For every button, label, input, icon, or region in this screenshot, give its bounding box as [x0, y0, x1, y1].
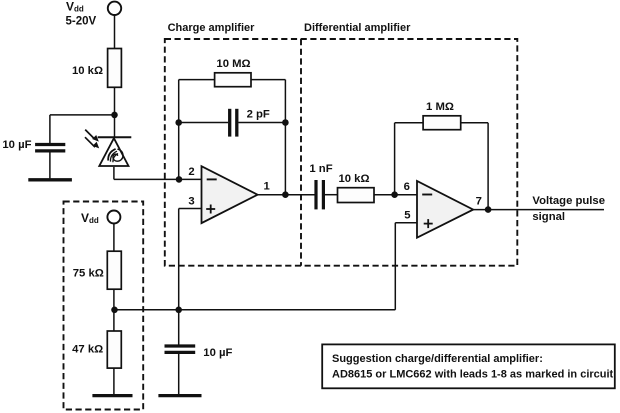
- svg-text:1 nF: 1 nF: [309, 163, 332, 175]
- svg-text:10 µF: 10 µF: [2, 139, 31, 151]
- svg-text:1 MΩ: 1 MΩ: [426, 101, 454, 113]
- svg-text:10 µF: 10 µF: [203, 347, 232, 359]
- svg-text:2: 2: [188, 166, 194, 178]
- svg-text:6: 6: [404, 181, 410, 193]
- svg-text:10 kΩ: 10 kΩ: [72, 65, 103, 77]
- svg-text:10 kΩ: 10 kΩ: [338, 173, 369, 185]
- svg-text:10 MΩ: 10 MΩ: [216, 58, 250, 70]
- svg-text:75 kΩ: 75 kΩ: [73, 268, 104, 280]
- svg-text:5: 5: [404, 210, 410, 222]
- svg-text:signal: signal: [532, 211, 565, 223]
- svg-text:7: 7: [476, 196, 482, 208]
- svg-text:5-20V: 5-20V: [66, 16, 97, 28]
- svg-text:Differential amplifier: Differential amplifier: [304, 22, 411, 34]
- svg-text:Voltage pulse: Voltage pulse: [532, 195, 605, 207]
- svg-text:3: 3: [188, 196, 194, 208]
- svg-text:Charge amplifier: Charge amplifier: [168, 22, 256, 34]
- svg-text:Suggestion charge/differential: Suggestion charge/differential amplifier…: [332, 353, 543, 365]
- svg-text:AD8615 or LMC662 with leads 1-: AD8615 or LMC662 with leads 1-8 as marke…: [332, 369, 614, 381]
- svg-text:1: 1: [264, 181, 270, 193]
- svg-text:2 pF: 2 pF: [247, 109, 270, 121]
- svg-text:47 kΩ: 47 kΩ: [72, 343, 103, 355]
